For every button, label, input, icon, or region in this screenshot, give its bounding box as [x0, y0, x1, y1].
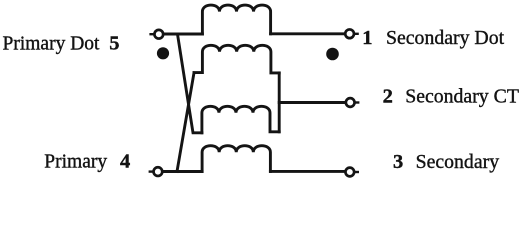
wire pin4 to winding W4 left leg — [163, 170, 202, 173]
terminal pin 5 (Primary Dot) — [154, 30, 163, 39]
wire CT vertical to pin 2 — [279, 101, 344, 104]
diagonal wire B: winding W2 left down to pin4 wire — [177, 73, 194, 172]
polarity dot primary — [157, 47, 169, 59]
terminal stub pin 5 — [151, 33, 154, 35]
diagonal wire A: pin5 node down to winding W3 left — [178, 34, 202, 133]
terminal stub pin 4 — [150, 170, 153, 172]
terminal pin 4 (Primary) — [154, 167, 163, 176]
polarity dot secondary — [326, 48, 339, 61]
winding W2 secondary section (4 humps) — [194, 45, 279, 73]
svg-text:1: 1 — [362, 27, 372, 49]
svg-text:Secondary Dot: Secondary Dot — [386, 27, 505, 49]
wire junction vertical: W2 right / CT / W3 right — [278, 73, 281, 132]
terminal pin 1 (Secondary Dot) — [345, 29, 354, 38]
svg-text:Primary: Primary — [44, 152, 107, 173]
wire W4 right leg to pin 3 — [270, 170, 344, 173]
svg-text:Secondary CT: Secondary CT — [405, 85, 519, 107]
terminal pin 2 (Secondary CT) — [346, 98, 355, 107]
winding W3 primary section (4 humps) — [202, 106, 279, 133]
winding W1 primary section top (4 humps) — [202, 5, 270, 34]
wire W1 right leg to pin 1 — [271, 32, 345, 35]
svg-text:Primary Dot: Primary Dot — [3, 34, 101, 55]
wire pin5 to winding W1 left leg — [164, 33, 202, 36]
svg-text:2: 2 — [383, 85, 393, 107]
svg-text:5: 5 — [109, 33, 119, 55]
terminal stub pin 2 — [356, 101, 359, 103]
terminal stub pin 1 — [355, 33, 358, 35]
svg-text:3: 3 — [393, 151, 403, 173]
terminal pin 3 (Secondary) — [345, 168, 354, 177]
terminal stub pin 3 — [355, 171, 358, 173]
winding W4 secondary section bottom (4 humps) — [202, 146, 270, 172]
svg-text:4: 4 — [120, 151, 130, 173]
svg-text:Secondary: Secondary — [416, 151, 500, 173]
